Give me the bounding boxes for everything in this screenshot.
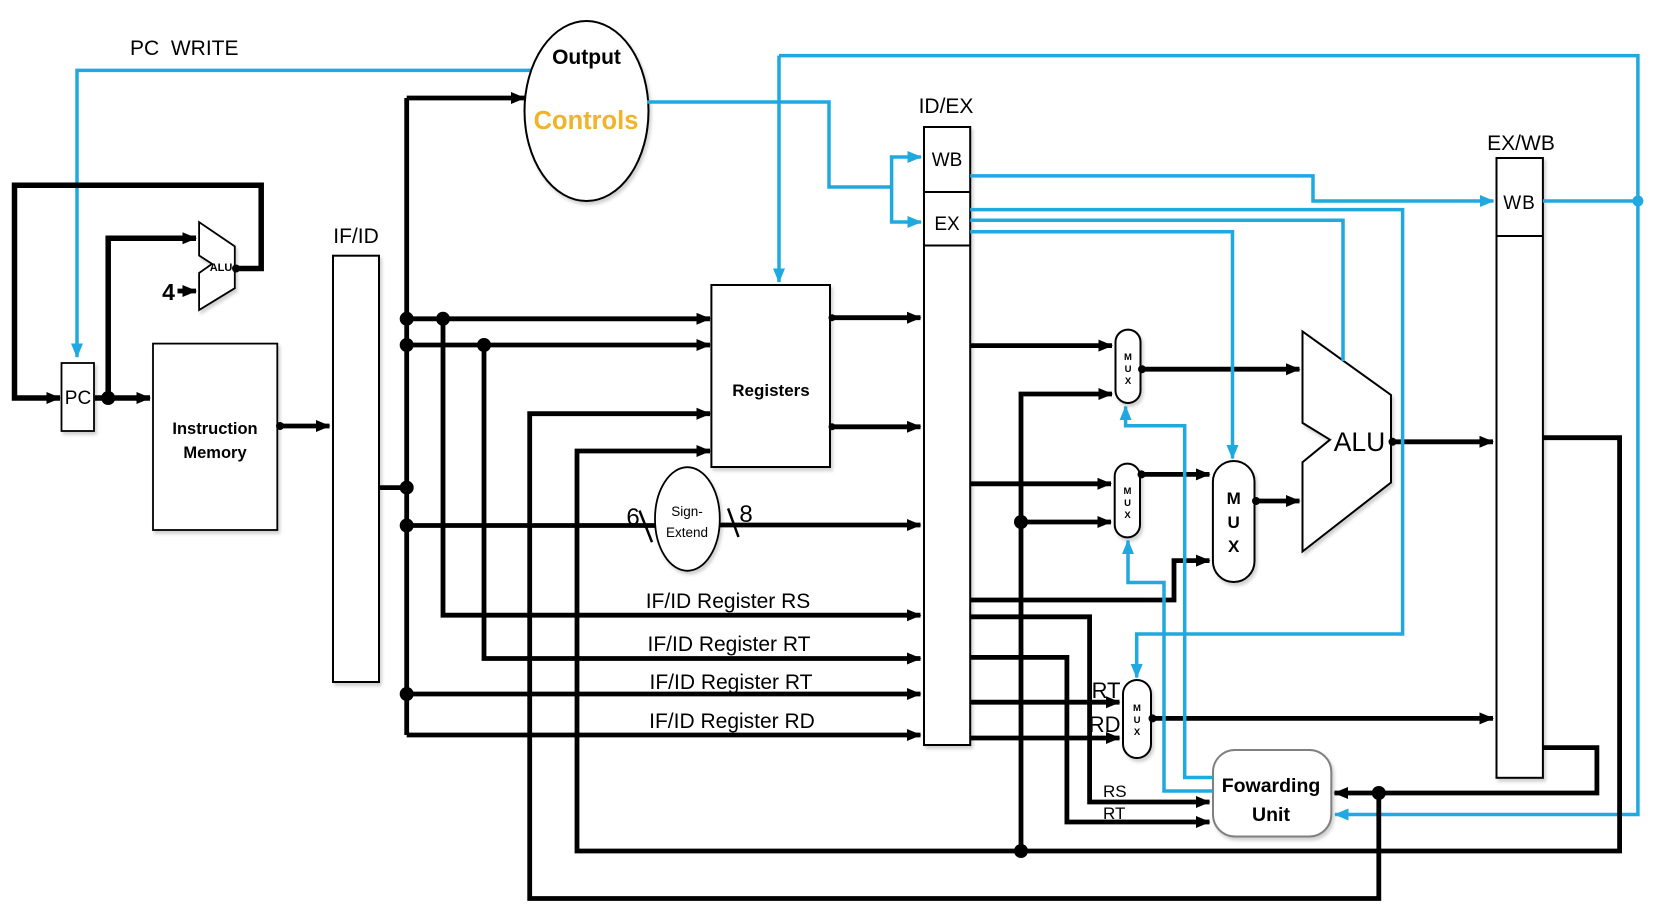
svg-text:WB: WB [1503, 193, 1536, 214]
wire ID/EX WB to EX/WB WB (cyan) [970, 176, 1493, 201]
junction feedback to MUX2 branch [1014, 515, 1028, 529]
svg-text:ALU: ALU [210, 262, 233, 274]
svg-text:U: U [1124, 498, 1131, 509]
wire PC feedback loop (adder output to PC input) [15, 185, 262, 398]
svg-text:M: M [1124, 352, 1132, 363]
component Instruction Memory [153, 344, 277, 530]
junction bus instruction [400, 481, 414, 495]
node bus width 6 tick [640, 511, 653, 543]
wire EX/WB destination register to Forwarding Unit [1335, 748, 1597, 793]
svg-text:EX/WB: EX/WB [1487, 132, 1555, 155]
node EX/WB WB compartment [1497, 235, 1543, 237]
wire destination register to Registers write register [530, 414, 1379, 899]
svg-text:Fowarding: Fowarding [1222, 775, 1321, 797]
wire Forwarding Unit control to MUX1 (cyan) [1126, 407, 1213, 778]
junction bus sign-extend [400, 519, 414, 533]
svg-text:X: X [1124, 510, 1131, 521]
svg-text:4: 4 [162, 279, 175, 305]
wire 4 to adder lower input [178, 289, 197, 294]
svg-text:IF/ID Register RD: IF/ID Register RD [649, 710, 815, 733]
wire ID/EX immediate to MUX4 lower input [970, 561, 1209, 600]
wire ID/EX RT to MUX3 [970, 700, 1119, 705]
wire feedback branch to MUX2 lower input [1021, 520, 1111, 525]
svg-text:PC: PC [65, 388, 91, 409]
svg-text:Instruction: Instruction [172, 420, 257, 438]
wire instruction low bits to Sign-Extend [407, 523, 655, 528]
wire instruction bus vertical [404, 98, 409, 735]
svg-text:IF/ID Register RS: IF/ID Register RS [646, 590, 811, 613]
junction destination register net [1372, 786, 1386, 800]
register ID/EX [924, 127, 970, 745]
wire ID/EX read data 1 to MUX1 [970, 343, 1112, 348]
register IF/ID [333, 256, 379, 682]
svg-text:X: X [1125, 376, 1132, 387]
junction on PC output [101, 391, 115, 405]
wire ID/EX EX control to MUX4 (cyan) [970, 232, 1232, 459]
svg-text:M: M [1133, 703, 1141, 714]
wire Controls to Registers write control (cyan vertical) [777, 56, 781, 282]
wire ID/EX EX control to MUX3 (cyan) [970, 210, 1402, 678]
component Output Controls ellipse [525, 21, 649, 201]
mux MUX1 (ALU input A forwarding) [1116, 330, 1141, 403]
junction RS branch [436, 312, 450, 326]
wire Instruction Memory output to IF/ID [277, 424, 329, 429]
wire Forwarding Unit control to MUX2 (cyan) [1128, 541, 1213, 792]
wire Registers read data 1 to ID/EX [830, 315, 921, 320]
svg-text:Unit: Unit [1252, 804, 1290, 826]
wire IF/ID Register RS into ID/EX [443, 319, 921, 615]
mux MUX3 (RT/RD destination select) [1123, 680, 1151, 758]
wire EX/WB ALU result writeback to Registers write data [577, 438, 1620, 851]
svg-text:PC WRITE: PC WRITE [130, 37, 239, 60]
svg-text:U: U [1228, 513, 1240, 532]
svg-text:RS: RS [1103, 782, 1127, 801]
svg-text:WB: WB [932, 150, 963, 171]
svg-text:ALU: ALU [1334, 427, 1386, 457]
wire instruction bus to Controls input [407, 96, 525, 101]
wire MUX1 output to ALU top input [1141, 367, 1300, 372]
svg-text:6: 6 [626, 504, 639, 531]
wire ID/EX RD to MUX3 [970, 736, 1119, 741]
svg-text:M: M [1227, 489, 1241, 508]
wire PC output to Instruction Memory [95, 395, 150, 401]
wire ALU output to EX/WB [1391, 439, 1493, 444]
svg-text:X: X [1134, 727, 1141, 738]
wire Registers read data 2 to ID/EX [830, 424, 921, 429]
svg-text:Controls: Controls [534, 107, 639, 135]
wire read register 2 into Registers [407, 343, 710, 348]
wire PC WRITE (cyan) from Controls to PC top [77, 70, 535, 357]
component Sign-Extend [655, 467, 720, 571]
wire IF/ID Register RT (2) into ID/EX [407, 692, 921, 697]
wire read register 1 into Registers [407, 316, 710, 321]
svg-text:RT: RT [1092, 678, 1121, 703]
junction adder output [232, 265, 240, 273]
op-amp adder ALU (PC+4) [199, 222, 235, 310]
node ID/EX WB compartment [924, 191, 970, 193]
junction bus rt2 [400, 687, 414, 701]
component Fowarding Unit [1213, 750, 1331, 837]
svg-text:Registers: Registers [732, 381, 809, 400]
junction cyan WB net [1632, 196, 1643, 207]
wire MUX4 output to ALU lower input [1255, 499, 1300, 504]
wire ID/EX RT to Forwarding Unit [970, 657, 1209, 822]
svg-text:Extend: Extend [666, 525, 708, 540]
junction bus read-reg2 [400, 338, 414, 352]
svg-text:IF/ID Register RT: IF/ID Register RT [650, 671, 813, 694]
wire IF/ID Register RT (1) into ID/EX [484, 345, 921, 659]
mux MUX4 (ALU src big mux) [1213, 461, 1255, 582]
wire MUX3 output to EX/WB [1151, 716, 1493, 721]
svg-text:RD: RD [1089, 712, 1121, 737]
svg-text:8: 8 [739, 501, 752, 528]
node ID/EX EX compartment [924, 245, 970, 247]
svg-text:Output: Output [552, 46, 621, 69]
svg-text:RT: RT [1103, 804, 1125, 823]
wire IF/ID output to instruction bus [379, 485, 407, 490]
wire IF/ID Register RD into ID/EX [407, 733, 921, 738]
component Registers [711, 285, 830, 467]
svg-text:ID/EX: ID/EX [919, 95, 974, 118]
wire ID/EX RS to Forwarding Unit [970, 617, 1209, 802]
junction bus read-reg1 [400, 312, 414, 326]
junction RT branch [477, 338, 491, 352]
register PC [62, 363, 95, 431]
wire ALU result feedback vertical to MUX1 lower input [1021, 394, 1112, 851]
wire EX/WB WB output (cyan) [1543, 199, 1638, 203]
wire Controls top loop to Forwarding Unit (cyan) [779, 56, 1638, 815]
register EX/WB [1497, 158, 1543, 778]
junction feedback to bottom line [1014, 844, 1028, 858]
wire PC output up to adder top input [108, 238, 196, 398]
mux MUX2 (ALU input B forwarding) [1115, 464, 1140, 538]
svg-text:U: U [1134, 715, 1141, 726]
wire Controls output to ID/EX WB and EX (cyan) [647, 102, 892, 187]
svg-text:IF/ID Register RT: IF/ID Register RT [648, 633, 811, 656]
svg-text:EX: EX [934, 214, 960, 235]
wire ID/EX EX control to ALU (cyan) [970, 220, 1343, 361]
svg-text:X: X [1228, 537, 1240, 556]
wire ID/EX read data 2 to MUX2 [970, 481, 1111, 486]
op-amp ALU main [1303, 331, 1392, 551]
wire Sign-Extend output to ID/EX [720, 523, 921, 528]
svg-text:Sign-: Sign- [671, 504, 703, 519]
node bus width 8 tick [728, 508, 738, 537]
svg-text:M: M [1124, 486, 1132, 497]
svg-text:IF/ID: IF/ID [333, 225, 379, 248]
wire MUX2 output to MUX4 [1140, 472, 1210, 477]
svg-text:Memory: Memory [183, 444, 247, 462]
svg-text:U: U [1125, 364, 1132, 375]
